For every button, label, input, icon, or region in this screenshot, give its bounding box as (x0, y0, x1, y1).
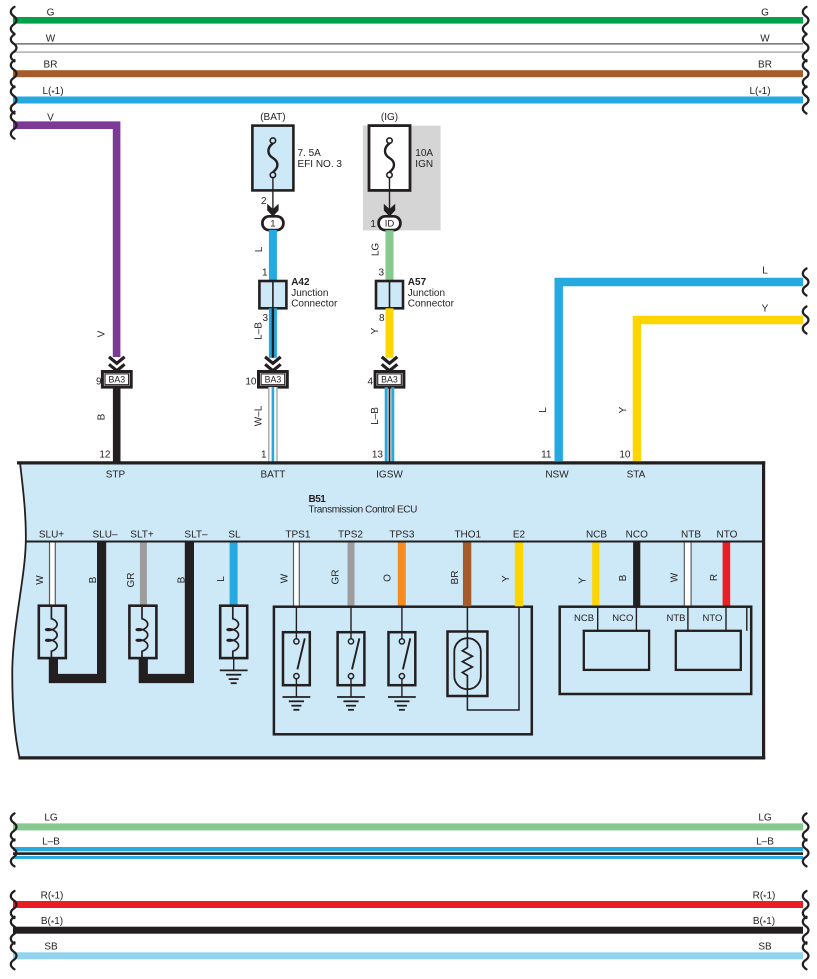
svg-text:1: 1 (262, 268, 268, 279)
wire L SL (216, 543, 238, 606)
fuse IGN (IG) (369, 112, 433, 210)
thermistor THO1 box (448, 632, 488, 697)
wire BR bus (13, 60, 803, 78)
svg-text:R: R (709, 574, 720, 581)
svg-text:NTB: NTB (667, 613, 686, 624)
wire stub NTB (687, 607, 689, 631)
connector oval ID (370, 216, 400, 230)
svg-text:9: 9 (96, 376, 102, 387)
svg-text:12: 12 (99, 449, 111, 460)
wire L from oval to A42 (254, 230, 277, 282)
svg-text:NSW: NSW (545, 470, 569, 481)
wire stub NCO (635, 607, 637, 631)
svg-text:W–L: W–L (254, 405, 265, 426)
break squiggle right B(*1) (803, 917, 809, 944)
svg-text:NCB: NCB (586, 529, 607, 540)
svg-text:Connector: Connector (408, 299, 455, 310)
wire B SLU- (U-shape) (53, 543, 101, 679)
wire L to NSW (538, 265, 803, 461)
svg-text:SL: SL (228, 529, 241, 540)
svg-text:8: 8 (379, 313, 385, 324)
svg-text:L: L (762, 265, 768, 276)
svg-text:NTO: NTO (717, 529, 738, 540)
svg-text:13: 13 (372, 449, 384, 460)
svg-text:G: G (761, 7, 769, 18)
wire stub NTO (725, 607, 727, 631)
wire SL solenoid to ground (233, 658, 235, 670)
svg-text:R(*1): R(*1) (753, 890, 776, 902)
break squiggle left W (11, 34, 17, 61)
svg-text:NCO: NCO (626, 529, 648, 540)
wire stub right spare (746, 607, 748, 631)
break squiggle left B(*1) (11, 917, 17, 944)
wire Y E2 (501, 543, 523, 607)
break squiggle right L(*1) (803, 87, 809, 114)
wire TPS3 stub inside box (401, 606, 403, 633)
break squiggle right G (803, 7, 809, 34)
svg-text:Y: Y (578, 577, 589, 584)
break squiggle left G (11, 7, 17, 34)
svg-text:L: L (538, 407, 549, 413)
svg-text:A42: A42 (291, 277, 310, 288)
ECU internal divider (25, 541, 763, 543)
ground TPS3 (388, 697, 416, 710)
svg-text:B: B (88, 576, 99, 583)
break squiggle left LG (11, 813, 17, 840)
wire B NCO (618, 543, 640, 606)
break squiggle left SB (11, 942, 17, 969)
svg-text:SLT–: SLT– (184, 529, 208, 540)
svg-text:BA3: BA3 (265, 374, 282, 384)
svg-text:G: G (47, 7, 55, 18)
svg-text:W: W (46, 34, 56, 45)
wire L-B from A42 to BA3 (254, 308, 277, 358)
svg-text:W: W (670, 572, 681, 582)
solenoid SLU (39, 606, 66, 658)
wire Y from A57 to BA3 (370, 308, 394, 358)
wire LG bus (13, 813, 803, 831)
svg-text:TPS1: TPS1 (285, 529, 310, 540)
wire TPS3 switch to ground (401, 685, 403, 697)
svg-text:L: L (254, 246, 265, 252)
wire O TPS3 (383, 543, 406, 606)
svg-text:NCB: NCB (574, 613, 594, 624)
wire TPS2 stub inside box (350, 606, 352, 633)
wire L-B from BA3 to IGSW pin 13 (370, 387, 394, 463)
wire W TPS1 (280, 543, 300, 606)
connector BA3 #10 (245, 372, 287, 388)
wire THO1 stub to thermistor (466, 606, 468, 640)
wire G bus (13, 7, 803, 23)
ECU row2 pin names (39, 529, 738, 540)
connector oval 1 (262, 216, 283, 230)
svg-text:B: B (618, 574, 629, 581)
svg-text:W: W (760, 34, 770, 45)
svg-text:Junction: Junction (408, 288, 445, 299)
svg-text:ID: ID (385, 219, 395, 230)
NC/NT inner labels (574, 613, 722, 624)
svg-text:Connector: Connector (291, 299, 338, 310)
svg-text:SLU+: SLU+ (39, 529, 64, 540)
svg-text:L: L (216, 576, 227, 582)
wire Y NCB (578, 543, 600, 606)
svg-text:LG: LG (44, 813, 58, 824)
svg-text:3: 3 (378, 268, 384, 279)
svg-text:Y: Y (501, 575, 512, 582)
svg-text:10: 10 (619, 449, 631, 460)
svg-text:1: 1 (270, 219, 275, 230)
wire SB bus (13, 942, 803, 960)
svg-text:B: B (97, 413, 108, 420)
wire TPS2 switch to ground (350, 685, 352, 697)
wire R NTO (709, 543, 730, 606)
break squiggle left V (11, 112, 17, 139)
break squiggle right SB (803, 942, 809, 969)
break squiggle left BR (11, 60, 17, 87)
wire W NTB (670, 543, 692, 606)
svg-text:Y: Y (618, 406, 629, 413)
break squiggle right L (803, 269, 809, 296)
svg-text:1: 1 (370, 219, 376, 230)
double arrow into BA3 (BATT) (265, 357, 281, 371)
svg-text:THO1: THO1 (454, 529, 481, 540)
break squiggle right L-B (803, 839, 809, 866)
svg-text:Y: Y (370, 327, 381, 334)
wire BR THO1 (450, 543, 471, 607)
TPS sensor box (274, 607, 532, 735)
break squiggle right W (803, 34, 809, 61)
svg-text:L(*1): L(*1) (42, 86, 63, 98)
svg-text:L(*1): L(*1) (749, 86, 770, 98)
wire W bus (13, 34, 803, 53)
wire LG from ID to A57 (371, 230, 394, 281)
svg-text:V: V (97, 330, 108, 337)
double arrow into BA3 (IGSW) (382, 357, 398, 371)
svg-text:4: 4 (367, 376, 373, 387)
svg-text:Junction: Junction (291, 288, 328, 299)
svg-text:B51: B51 (309, 494, 327, 505)
thermistor capsule (454, 638, 481, 689)
ground TPS1 (283, 697, 311, 710)
svg-text:E2: E2 (513, 529, 526, 540)
arrow into connector ID (384, 204, 395, 217)
svg-text:TPS3: TPS3 (389, 529, 414, 540)
wire L(*1) bus (13, 86, 803, 104)
svg-text:W: W (280, 573, 291, 583)
wire stub NCB (597, 607, 599, 631)
solenoid SLT (129, 606, 156, 658)
wire thermistor to E2 link (467, 607, 519, 710)
wire Y to STA (618, 303, 803, 461)
ECU B51 body (12, 461, 765, 759)
svg-text:BR: BR (44, 60, 58, 71)
break squiggle left L(*1) (11, 87, 17, 114)
junction connector A57 (376, 277, 455, 324)
svg-text:BR: BR (450, 571, 461, 585)
svg-text:EFI NO. 3: EFI NO. 3 (298, 159, 343, 170)
svg-text:Y: Y (762, 303, 769, 314)
svg-text:NTO: NTO (702, 613, 722, 624)
svg-text:IGSW: IGSW (376, 470, 403, 481)
gray block background (363, 126, 441, 231)
svg-text:BA3: BA3 (108, 374, 125, 384)
wire TPS1 stub inside box (295, 606, 297, 633)
svg-text:(IG): (IG) (381, 112, 398, 123)
ground TPS2 (337, 697, 365, 710)
svg-text:10: 10 (245, 376, 257, 387)
thermistor resistor zigzag (462, 640, 472, 688)
wire L-B bus (13, 836, 803, 859)
svg-text:2: 2 (261, 196, 267, 207)
wire B SLT- (U-shape) (143, 543, 189, 679)
NC/NT sensor outer box (560, 607, 752, 694)
break squiggle right LG (803, 813, 809, 840)
svg-text:GR: GR (126, 573, 137, 588)
wire W SLU+ (35, 543, 56, 606)
svg-text:SLT+: SLT+ (130, 529, 154, 540)
svg-text:LG: LG (758, 813, 772, 824)
svg-text:1: 1 (261, 449, 267, 460)
svg-text:L–B: L–B (42, 836, 60, 847)
svg-text:SB: SB (44, 942, 58, 953)
junction connector A42 (259, 277, 338, 324)
wire GR TPS2 (331, 543, 355, 606)
svg-text:10A: 10A (415, 148, 433, 159)
connector BA3 #9 (96, 372, 131, 388)
wire R(*1) bus (13, 890, 803, 908)
svg-text:NCO: NCO (612, 613, 633, 624)
wire V to STP (13, 112, 117, 357)
svg-text:B: B (177, 576, 188, 583)
svg-text:V: V (47, 112, 54, 123)
wire TPS1 switch to ground (295, 685, 297, 697)
svg-text:STA: STA (627, 470, 646, 481)
svg-text:11: 11 (541, 449, 552, 460)
svg-text:BA3: BA3 (381, 374, 398, 384)
svg-text:R(*1): R(*1) (41, 890, 64, 902)
svg-text:B(*1): B(*1) (753, 916, 775, 928)
wire GR SLT+ (126, 543, 147, 606)
svg-text:(BAT): (BAT) (260, 112, 285, 123)
wire B(*1) bus (13, 916, 803, 934)
ground SL (220, 670, 248, 683)
svg-text:W: W (35, 575, 46, 585)
wire B from BA3 to STP pin 12 (97, 387, 121, 463)
svg-text:L–B: L–B (254, 322, 265, 340)
svg-text:LG: LG (371, 243, 382, 257)
switch TPS2 (338, 632, 365, 685)
break squiggle left L-B (11, 839, 17, 866)
arrow into connector 1 (BAT) (267, 204, 278, 217)
svg-text:L–B: L–B (370, 407, 381, 425)
break squiggle left R(*1) (11, 891, 17, 918)
svg-text:SB: SB (758, 942, 772, 953)
svg-text:A57: A57 (408, 277, 427, 288)
ECU top pin names (106, 470, 646, 481)
svg-text:O: O (383, 574, 394, 582)
double arrow into BA3 (V) (109, 357, 125, 371)
fuse EFI NO.3 (BAT) (252, 112, 342, 210)
break squiggle right R(*1) (803, 891, 809, 918)
svg-text:BATT: BATT (260, 470, 285, 481)
svg-text:STP: STP (106, 470, 126, 481)
svg-text:NTB: NTB (681, 529, 701, 540)
switch TPS3 (389, 632, 416, 685)
solenoid SL (220, 606, 247, 658)
svg-text:Transmission Control ECU: Transmission Control ECU (309, 504, 418, 515)
NT sensor inner box (676, 631, 741, 670)
svg-text:TPS2: TPS2 (338, 529, 363, 540)
NC sensor inner box (584, 631, 649, 670)
svg-text:SLU–: SLU– (92, 529, 117, 540)
wire W-L from BA3 to BATT pin 1 (254, 387, 278, 463)
svg-text:IGN: IGN (415, 159, 433, 170)
break squiggle right BR (803, 60, 809, 87)
break squiggle right Y (803, 307, 809, 334)
svg-text:L–B: L–B (756, 836, 774, 847)
svg-text:GR: GR (331, 570, 342, 585)
switch TPS1 (283, 632, 310, 685)
svg-text:BR: BR (758, 60, 772, 71)
connector BA3 #4 (367, 372, 403, 388)
svg-text:7. 5A: 7. 5A (298, 148, 322, 159)
svg-text:B(*1): B(*1) (41, 916, 63, 928)
